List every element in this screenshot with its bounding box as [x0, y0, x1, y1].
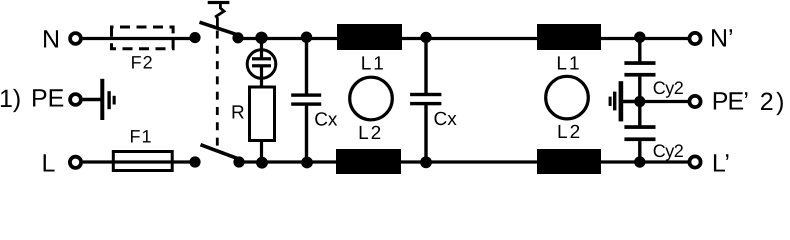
ground PE right — [609, 81, 624, 121]
svg-text:L’: L’ — [712, 150, 730, 177]
wire L line right (switch to L' terminal) — [239, 160, 688, 163]
surge arrester (gas discharge tube) — [247, 49, 276, 79]
wire ground stub to PE' node — [623, 100, 640, 103]
svg-text:L1: L1 — [361, 53, 386, 74]
node N/arrester junction — [255, 32, 267, 44]
node Cx2 bottom junction — [420, 156, 432, 168]
switch coupling dashed link — [216, 31, 219, 150]
node Cx1 bottom junction — [301, 157, 313, 169]
fuse F1 (box) — [113, 152, 172, 171]
svg-text:2): 2) — [760, 88, 787, 116]
svg-text:1): 1) — [0, 85, 21, 113]
node Cx1 top junction — [301, 32, 312, 43]
svg-text:L2: L2 — [358, 123, 383, 144]
svg-text:F2: F2 — [131, 53, 154, 73]
svg-text:Cx: Cx — [434, 109, 458, 130]
terminal N' — [689, 33, 700, 44]
wire N line right (switch to N' terminal) — [238, 37, 688, 40]
svg-text:L: L — [42, 150, 56, 177]
capacitor Cx (first) — [291, 39, 321, 163]
svg-text:N’: N’ — [710, 24, 734, 52]
terminal N — [70, 33, 81, 44]
node PE' junction — [634, 96, 645, 107]
terminal L' — [689, 156, 700, 167]
wire arrester top lead — [260, 39, 263, 51]
choke 1 winding top (black box) — [337, 24, 402, 50]
switch pole N: right contact dot — [232, 32, 243, 43]
choke 1 core circle — [350, 77, 393, 120]
choke 2 core circle — [546, 76, 589, 119]
wire N line left (N terminal to switch) — [83, 37, 195, 40]
switch pole N: left contact dot — [189, 32, 200, 43]
switch pole L: right contact dot — [233, 156, 244, 167]
node Cy2 bottom junction — [634, 156, 645, 167]
choke 1 winding bottom (black box) — [336, 149, 401, 174]
terminal PE (input) — [70, 94, 81, 105]
fuse F2 (dashed box) — [112, 27, 174, 49]
svg-text:R: R — [231, 103, 245, 124]
svg-text:L1: L1 — [556, 53, 581, 74]
svg-text:PE’: PE’ — [712, 88, 749, 116]
capacitor Cy2 top — [624, 37, 655, 102]
resistor R — [250, 87, 275, 141]
svg-text:F1: F1 — [130, 126, 153, 146]
svg-text:Cy2: Cy2 — [653, 141, 684, 161]
wire L line left (L terminal to switch) — [83, 160, 195, 163]
svg-text:Cy2: Cy2 — [653, 78, 684, 98]
capacitor Cx (second) — [410, 39, 441, 163]
switch actuator spring zigzag — [216, 4, 224, 29]
capacitor Cy2 bottom — [624, 102, 655, 163]
terminal L — [70, 157, 81, 168]
choke 2 winding top (black box) — [537, 24, 601, 50]
svg-text:N: N — [42, 26, 60, 54]
svg-text:L2: L2 — [557, 122, 582, 143]
wire PE stub — [83, 98, 101, 101]
svg-text:Cx: Cx — [314, 110, 338, 131]
choke 2 winding bottom (black box) — [537, 149, 601, 174]
switch pole N: blade — [200, 22, 238, 35]
switch pole L: left contact dot — [189, 156, 200, 167]
terminal PE' — [689, 96, 700, 107]
node Cx2 top junction — [420, 32, 431, 43]
svg-text:PE: PE — [31, 85, 64, 113]
switch pole L: blade — [201, 145, 239, 159]
node resistor/L junction — [256, 157, 268, 169]
wire arrester to resistor — [260, 79, 263, 89]
wire PE' node to terminal — [640, 100, 688, 103]
ground PE left — [100, 79, 115, 120]
wire resistor bottom lead — [260, 140, 263, 162]
node Cy2 top junction — [634, 32, 645, 43]
switch actuator bar — [208, 1, 230, 4]
